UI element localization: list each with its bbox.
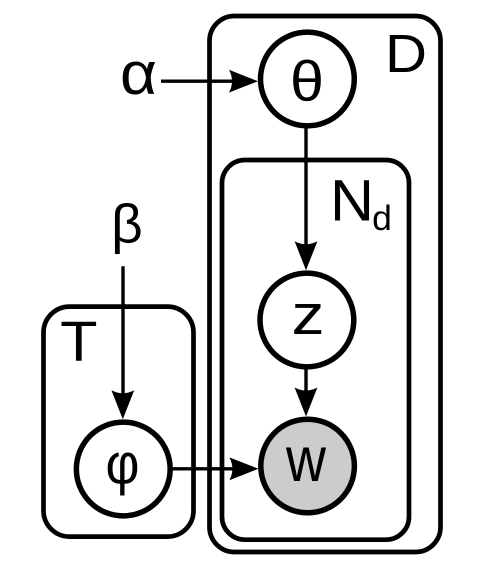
svg-text:β: β — [111, 193, 143, 255]
plate D — [210, 16, 441, 552]
svg-text:N: N — [330, 168, 374, 233]
svg-text:α: α — [120, 40, 157, 107]
node theta circle — [261, 32, 355, 126]
arrow z to w — [295, 367, 318, 417]
svg-text:d: d — [372, 198, 392, 238]
node beta label — [111, 193, 143, 255]
arrow theta to z — [295, 126, 318, 270]
svg-text:z: z — [292, 283, 325, 347]
svg-text:φ: φ — [106, 433, 140, 497]
svg-text:D: D — [385, 24, 427, 84]
svg-text:θ: θ — [290, 50, 324, 114]
plate label D — [385, 24, 427, 84]
svg-text:T: T — [60, 310, 97, 374]
node phi circle — [76, 422, 170, 516]
arrow phi to w — [172, 457, 259, 480]
plate T — [44, 307, 194, 537]
plate N_d — [222, 160, 409, 540]
node z circle — [260, 273, 354, 367]
plate label T — [60, 310, 97, 374]
arrow alpha to theta — [161, 70, 258, 93]
svg-text:w: w — [285, 425, 326, 495]
arrow beta to phi — [111, 266, 134, 419]
node alpha label — [120, 40, 157, 107]
plate label N_d — [330, 168, 392, 237]
node w circle (observed, shaded) — [261, 419, 355, 513]
